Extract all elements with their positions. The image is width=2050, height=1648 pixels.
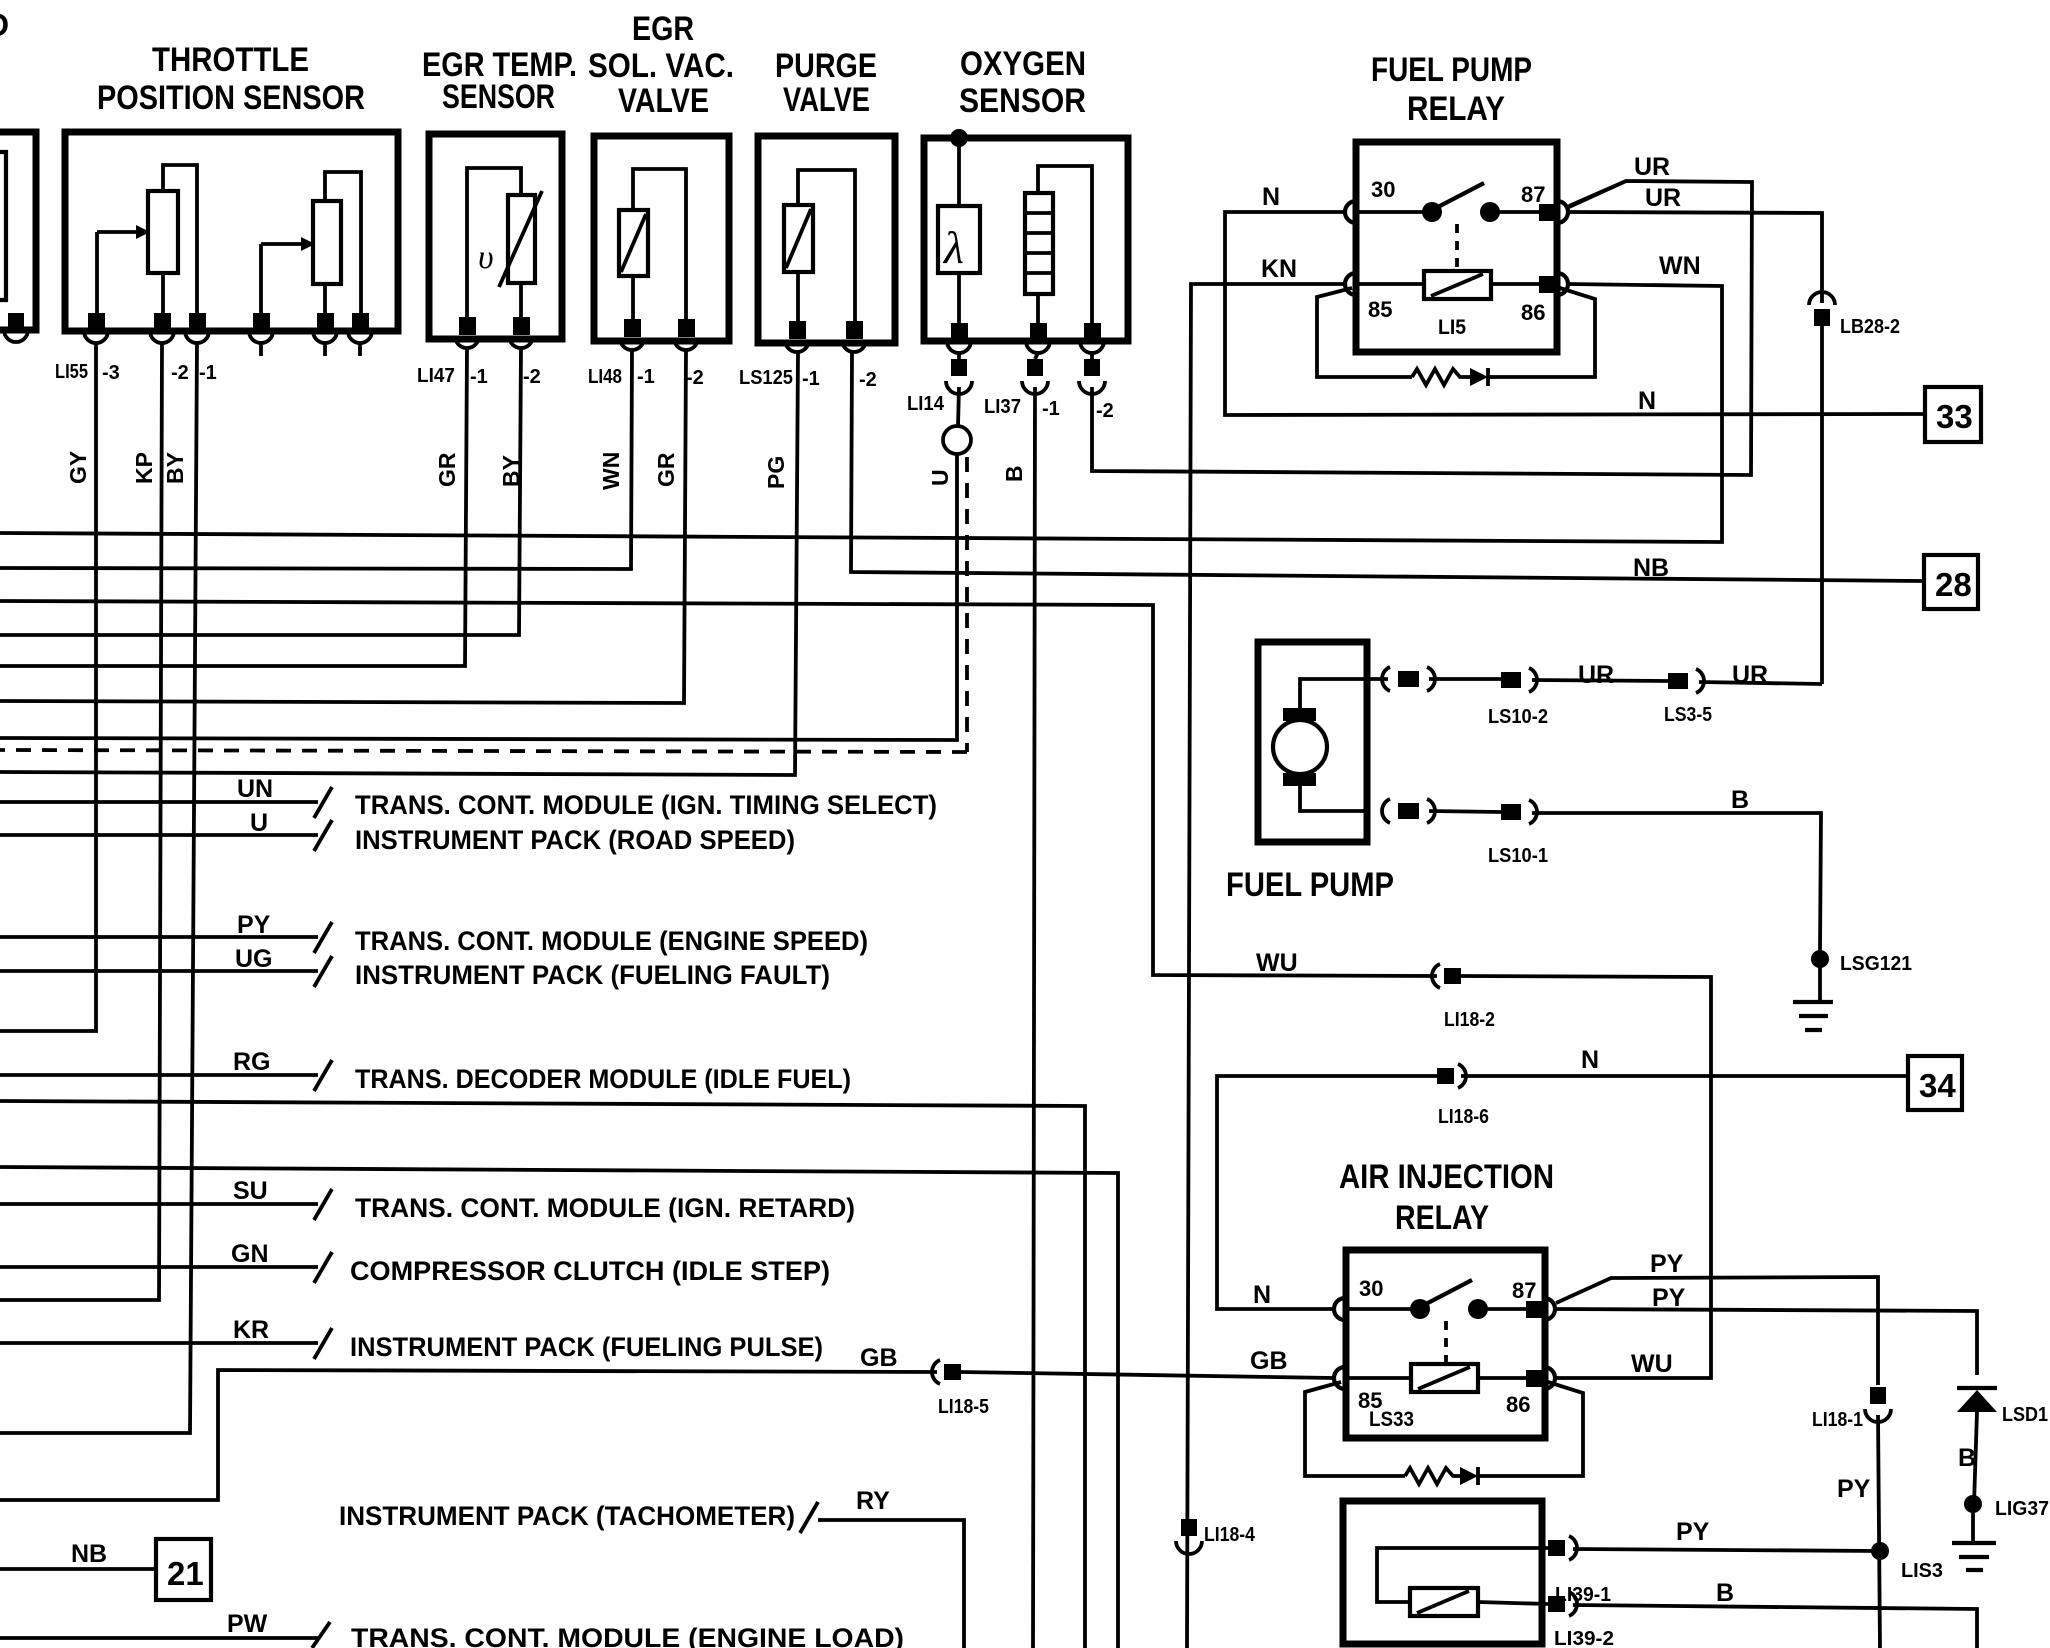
relay coil xyxy=(1424,271,1491,299)
relay terminal bump 86 xyxy=(1557,273,1568,295)
svg-text:FUEL PUMP: FUEL PUMP xyxy=(1371,51,1532,89)
ground symbol LIG37 xyxy=(1952,1543,1996,1570)
svg-text:-2: -2 xyxy=(1096,400,1114,422)
wire PY from LI18-1 to LIS3 xyxy=(1878,1415,1880,1648)
relay switch arm xyxy=(1436,183,1484,208)
wire UR upper from relay 87 xyxy=(1569,181,1626,206)
svg-text:-2: -2 xyxy=(686,367,704,389)
fuel pump box xyxy=(1258,642,1367,842)
air relay switch arm xyxy=(1424,1280,1472,1305)
svg-text:30: 30 xyxy=(1371,177,1395,202)
TPS pin 6 xyxy=(352,313,369,331)
svg-text:WU: WU xyxy=(1256,949,1298,977)
lambda cell bottom wire to pin xyxy=(957,273,961,323)
svg-text:COMPRESSOR CLUTCH (IDLE STEP): COMPRESSOR CLUTCH (IDLE STEP) xyxy=(350,1256,830,1286)
wire B from LSD1 to LIG37 xyxy=(1974,1412,1977,1504)
connector LI39-2 cup xyxy=(1569,1592,1577,1616)
svg-text:VALVE: VALVE xyxy=(618,82,709,120)
LI37-2 connector cup xyxy=(1079,381,1105,394)
TPS pot1 top loop wire xyxy=(163,165,197,315)
svg-text:UR: UR xyxy=(1732,661,1768,689)
svg-text:N: N xyxy=(1262,183,1280,211)
svg-text:PY: PY xyxy=(1650,1250,1684,1278)
TPS pot1 wiper wire xyxy=(97,232,136,315)
ground junction dot LSG121 xyxy=(1811,950,1829,968)
svg-text:LI14: LI14 xyxy=(907,393,945,415)
svg-text:LI48: LI48 xyxy=(588,366,622,388)
purge pin -2 xyxy=(846,321,863,339)
svg-text:UG: UG xyxy=(235,945,273,973)
ground symbol xyxy=(1793,1002,1833,1030)
svg-text:LIS3: LIS3 xyxy=(1901,1560,1943,1582)
wire KN relay 85 to page bottom xyxy=(1187,284,1345,1648)
svg-text:RELAY: RELAY xyxy=(1395,1199,1489,1237)
stub wire UN xyxy=(0,800,318,804)
wire GR from EGR valve -2 xyxy=(0,350,686,703)
air relay terminal bump 85 xyxy=(1334,1367,1345,1389)
stub wire PW xyxy=(0,1636,318,1640)
break slash SU xyxy=(314,1189,332,1220)
EGR solenoid body xyxy=(619,210,648,276)
air relay switch wire to 87 xyxy=(1486,1307,1527,1311)
wire PY from LI39-1 to LIS3 xyxy=(1573,1549,1880,1551)
svg-text:LI18-5: LI18-5 xyxy=(938,1396,989,1418)
svg-text:LI39-2: LI39-2 xyxy=(1554,1628,1614,1648)
connector LI18-2 cup xyxy=(1432,964,1440,988)
connector LI39-2 square xyxy=(1548,1596,1565,1612)
svg-text:NB: NB xyxy=(71,1540,107,1568)
svg-text:GY: GY xyxy=(65,451,91,484)
svg-text:B: B xyxy=(1731,786,1749,814)
numbered box 34 xyxy=(1908,1056,1962,1110)
relay switch wire from 30 xyxy=(1356,210,1424,214)
air solenoid valve box xyxy=(1343,1501,1542,1644)
stub wire UG xyxy=(0,969,318,973)
svg-text:RG: RG xyxy=(233,1048,271,1076)
pump top harness connector pair xyxy=(1367,677,1388,681)
oxygen pin U xyxy=(951,323,968,341)
svg-text:λ: λ xyxy=(942,222,964,273)
wire B from LI37-1 down off page xyxy=(1033,387,1035,1648)
EGR temp wire to pin2 xyxy=(519,283,523,317)
connector LS10-2 xyxy=(1501,672,1521,688)
svg-text:B: B xyxy=(1716,1579,1734,1607)
wire PG from purge -1 xyxy=(0,352,798,775)
TPS pin stubs xyxy=(261,343,360,356)
svg-text:85: 85 xyxy=(1368,297,1392,322)
LI14 connector square xyxy=(951,359,967,376)
svg-text:UR: UR xyxy=(1634,153,1670,181)
TPS pin -2 xyxy=(154,313,171,331)
air solenoid right wire xyxy=(1478,1602,1548,1604)
relay actuator dashed link xyxy=(1455,224,1459,271)
EGR temp thermistor body xyxy=(508,195,535,283)
LI14 connector cup xyxy=(946,381,972,394)
wire GY from TPS -3 xyxy=(0,343,96,1031)
wire GR from EGR temp -1 xyxy=(0,348,467,666)
numbered box 33 xyxy=(1925,387,1981,442)
air solenoid left loop wire xyxy=(1377,1548,1548,1602)
wire N from LI18-6 to box 34 xyxy=(1461,1074,1908,1078)
TPS pin bumps xyxy=(84,331,372,343)
svg-text:VALVE: VALVE xyxy=(783,81,870,119)
wire PY upper from air relay 87 xyxy=(1556,1277,1878,1385)
relay suppression branch left xyxy=(1317,288,1412,377)
break slash PW xyxy=(312,1622,330,1648)
svg-text:GR: GR xyxy=(653,452,679,487)
break slash RY xyxy=(800,1502,818,1533)
connector LI18-1 square xyxy=(1870,1387,1886,1404)
wire WU from left bus to LI18-2 xyxy=(0,601,1437,976)
svg-text:NB: NB xyxy=(1633,554,1669,582)
svg-text:21: 21 xyxy=(167,1555,204,1592)
wire UR from LI37-2 heater to relay 87 xyxy=(1092,181,1752,475)
wire PY lower from air relay 87 to LSD1 xyxy=(1555,1309,1977,1375)
svg-text:LI18-4: LI18-4 xyxy=(1204,1524,1256,1546)
svg-text:LS33: LS33 xyxy=(1369,1408,1414,1431)
wire from LB28-2 down to fuel pump UR line xyxy=(1820,326,1824,684)
air relay switch contact dot left xyxy=(1410,1299,1430,1319)
connector LI39-1 square xyxy=(1548,1540,1565,1556)
svg-text:SOL. VAC.: SOL. VAC. xyxy=(588,47,734,85)
svg-text:THROTTLE: THROTTLE xyxy=(152,41,309,79)
svg-text:-1: -1 xyxy=(470,366,488,388)
bump of partial box xyxy=(4,330,28,342)
relay coil wire to 86 xyxy=(1491,282,1540,286)
svg-text:D: D xyxy=(0,7,9,43)
connector LI18-5 square xyxy=(944,1364,961,1380)
svg-text:N: N xyxy=(1638,387,1656,415)
connector LS10-1 xyxy=(1501,804,1521,820)
svg-text:N: N xyxy=(1253,1281,1271,1309)
air solenoid diagonal xyxy=(1417,1591,1469,1613)
svg-text:SU: SU xyxy=(233,1177,268,1205)
connector LI18-6 square xyxy=(1437,1068,1454,1084)
wire GB from left bus to LI18-5 xyxy=(0,1370,937,1500)
EGR valve pin bumps xyxy=(620,338,698,350)
svg-text:87: 87 xyxy=(1512,1278,1536,1303)
partial component box at left page edge xyxy=(0,132,36,330)
bus wire to page bottom left xyxy=(0,1101,1085,1648)
svg-text:TRANS. CONT. MODULE (IGN. TIMI: TRANS. CONT. MODULE (IGN. TIMING SELECT) xyxy=(355,790,937,820)
LI37-1 connector square xyxy=(1027,359,1043,376)
wire BY from EGR temp -2 xyxy=(0,348,521,635)
TPS pot2 top loop wire xyxy=(325,172,361,315)
TPS potentiometer 1 xyxy=(148,191,178,273)
relay switch wire to 87 xyxy=(1498,210,1540,214)
wire UR between LS10-2 and LS3-5 xyxy=(1532,680,1668,681)
svg-text:LS10-2: LS10-2 xyxy=(1488,706,1548,728)
wire N relay 30 to box 33 xyxy=(1225,212,1925,415)
TPS pot1 bottom wire xyxy=(161,273,165,315)
bus wire to page bottom right xyxy=(0,1167,1118,1648)
svg-text:U: U xyxy=(927,469,953,486)
svg-text:LI37: LI37 xyxy=(984,396,1021,418)
junction dot LIS3 xyxy=(1871,1542,1889,1560)
LI37-2 connector square xyxy=(1084,359,1100,376)
break slash RG xyxy=(314,1060,332,1091)
svg-text:LS3-5: LS3-5 xyxy=(1664,704,1712,726)
svg-text:-2: -2 xyxy=(171,362,189,384)
EGR valve pin -1 xyxy=(624,319,641,337)
connector LI18-4 square xyxy=(1181,1519,1197,1536)
svg-text:KR: KR xyxy=(233,1316,269,1344)
svg-text:PY: PY xyxy=(1652,1284,1686,1312)
wire LIG37 to ground xyxy=(1971,1512,1975,1543)
lambda cell top wire xyxy=(957,142,961,206)
connector LI18-4 cup xyxy=(1176,1541,1202,1554)
svg-text:FUEL PUMP: FUEL PUMP xyxy=(1226,866,1394,904)
svg-text:RY: RY xyxy=(856,1487,890,1515)
diode LSD1 xyxy=(1957,1390,1997,1412)
wire B from LS10-1 to ground drop xyxy=(1532,813,1821,951)
svg-text:-3: -3 xyxy=(102,362,120,384)
svg-text:LSG121: LSG121 xyxy=(1840,953,1912,975)
purge solenoid top loop wire to pin2 xyxy=(798,170,855,321)
svg-text:LIG37: LIG37 xyxy=(1995,1498,2049,1520)
air suppression branch right xyxy=(1478,1382,1583,1476)
fuel pump top feed wire xyxy=(1300,679,1367,708)
svg-text:-1: -1 xyxy=(637,366,655,388)
svg-text:33: 33 xyxy=(1936,398,1973,435)
svg-text:SENSOR: SENSOR xyxy=(442,78,555,116)
connector LI39-1 cup xyxy=(1569,1536,1577,1560)
fuel pump brush top xyxy=(1283,708,1316,721)
relay switch contact dot left xyxy=(1422,202,1442,222)
relay 86 square xyxy=(1539,276,1556,293)
air relay switch wire from 30 xyxy=(1345,1307,1412,1311)
wire B from LI39-2 to page bottom xyxy=(1573,1605,1977,1648)
svg-text:GR: GR xyxy=(434,452,460,487)
svg-text:BY: BY xyxy=(498,455,524,487)
svg-text:PURGE: PURGE xyxy=(775,47,877,85)
EGR valve pin -2 xyxy=(678,319,695,337)
oxygen pin -1 xyxy=(1030,323,1047,341)
TPS pot2 bottom wire xyxy=(323,284,327,315)
EGR solenoid top loop wire to pin2 xyxy=(633,169,686,319)
svg-text:KN: KN xyxy=(1261,255,1297,283)
LI37-1 connector cup xyxy=(1022,381,1048,394)
connector LI18-2 square xyxy=(1444,968,1461,984)
inner rect of partial box xyxy=(0,152,6,300)
connector LB28-2 cup xyxy=(1809,292,1835,305)
break slash UG xyxy=(314,956,332,987)
connector LB28-2 square xyxy=(1814,309,1830,326)
svg-text:LI18-6: LI18-6 xyxy=(1438,1106,1489,1128)
wire KP from TPS -2 xyxy=(0,343,162,1300)
heater top loop wire to pin2 xyxy=(1038,166,1092,323)
throttle position sensor box xyxy=(65,132,398,331)
purge solenoid body xyxy=(784,205,813,272)
oxygen sensor box xyxy=(924,138,1128,341)
svg-text:GN: GN xyxy=(231,1240,269,1268)
fuel pump bottom wire xyxy=(1300,786,1367,811)
connector LS3-5 xyxy=(1668,673,1688,689)
svg-text:LI18-2: LI18-2 xyxy=(1444,1009,1495,1031)
air relay coil xyxy=(1411,1364,1478,1392)
svg-text:LS10-1: LS10-1 xyxy=(1488,845,1548,867)
TPS pin 4 xyxy=(253,313,270,331)
svg-text:UR: UR xyxy=(1578,661,1614,689)
air relay coil wire to 86 xyxy=(1478,1376,1527,1380)
svg-text:-1: -1 xyxy=(199,362,217,384)
svg-text:PY: PY xyxy=(237,911,271,939)
svg-text:LB28-2: LB28-2 xyxy=(1840,316,1900,338)
air solenoid body xyxy=(1410,1588,1478,1616)
svg-text:LI55: LI55 xyxy=(55,361,88,383)
EGR temp pin bumps xyxy=(455,336,533,348)
relay terminal bump 85 xyxy=(1345,273,1356,295)
air relay terminal bump 87 xyxy=(1544,1298,1555,1320)
air relay 86 square xyxy=(1526,1370,1543,1387)
svg-text:UR: UR xyxy=(1645,184,1681,212)
connector LI18-5 cup xyxy=(932,1360,940,1384)
purge solenoid bottom wire to pin1 xyxy=(796,272,800,321)
connector LI18-1 cup xyxy=(1865,1409,1891,1422)
svg-text:LI47: LI47 xyxy=(417,365,455,387)
wire U from LI14 down through grommet xyxy=(0,387,959,740)
svg-text:LI5: LI5 xyxy=(1438,316,1466,339)
EGR sol vac valve box xyxy=(594,136,729,341)
TPS pin 5 xyxy=(317,313,334,331)
wire WN from EGR valve -1 xyxy=(0,350,632,569)
air relay switch contact dot right xyxy=(1468,1299,1488,1319)
wire UR from LS3-5 to LB28-2 drop xyxy=(1699,682,1822,684)
relay switch contact dot right xyxy=(1480,202,1500,222)
air suppression resistor xyxy=(1405,1468,1460,1484)
TPS pot2 wiper wire xyxy=(261,244,301,315)
svg-text:WN: WN xyxy=(1659,252,1701,280)
svg-text:υ: υ xyxy=(478,239,494,276)
svg-text:-2: -2 xyxy=(859,369,877,391)
svg-text:GB: GB xyxy=(860,1344,898,1372)
svg-text:-1: -1 xyxy=(802,368,820,390)
svg-text:WU: WU xyxy=(1631,1350,1673,1378)
EGR temp pin -2 xyxy=(513,317,530,335)
break slash GN xyxy=(314,1252,332,1283)
svg-text:SENSOR: SENSOR xyxy=(959,82,1086,120)
svg-text:30: 30 xyxy=(1359,1276,1383,1301)
fuel pump relay box xyxy=(1356,142,1557,352)
oxygen pin -2 xyxy=(1084,323,1101,341)
EGR solenoid diagonal xyxy=(621,214,646,272)
svg-text:TRANS. CONT. MODULE (IGN. RETA: TRANS. CONT. MODULE (IGN. RETARD) xyxy=(355,1193,855,1223)
TPS pot1 wiper arrowhead xyxy=(136,225,150,239)
junction dot LIG37 xyxy=(1964,1495,1982,1513)
oxygen sensor case junction dot xyxy=(950,129,968,147)
oxygen lambda cell xyxy=(938,206,980,273)
svg-text:86: 86 xyxy=(1506,1392,1530,1417)
wire UR lower from relay 87 to LB28-2 xyxy=(1568,212,1822,303)
break slash UN xyxy=(314,787,332,818)
wire pin to LI14 connector xyxy=(957,353,961,359)
svg-text:GB: GB xyxy=(1250,1347,1288,1375)
relay coil diagonal xyxy=(1431,274,1483,296)
air relay coil wire from 85 xyxy=(1345,1376,1411,1380)
svg-text:PG: PG xyxy=(763,456,789,489)
svg-text:-1: -1 xyxy=(1042,398,1060,420)
TPS pin -3 xyxy=(88,313,105,331)
stub wire U xyxy=(0,833,318,837)
air relay suppression branch left xyxy=(1305,1382,1405,1476)
svg-text:28: 28 xyxy=(1935,566,1972,603)
oxygen heater element stack xyxy=(1025,193,1053,294)
pin of partial box xyxy=(8,313,24,329)
air relay terminal bump 86 xyxy=(1544,1367,1555,1389)
EGR temp pin -1 xyxy=(459,317,476,335)
suppression branch right xyxy=(1488,288,1595,377)
grommet circle on U wire xyxy=(943,426,971,454)
svg-text:UN: UN xyxy=(237,775,273,803)
svg-text:B: B xyxy=(1001,465,1027,482)
air relay actuator dashed link xyxy=(1444,1321,1448,1364)
relay coil wire from 85 xyxy=(1356,282,1424,286)
svg-text:LSD1: LSD1 xyxy=(2002,1404,2048,1426)
wire LI37-2 stub xyxy=(1090,353,1094,359)
break slash PY xyxy=(314,922,332,953)
relay terminal bump 30 xyxy=(1345,201,1356,223)
svg-text:PY: PY xyxy=(1837,1475,1871,1503)
purge valve box xyxy=(758,136,895,343)
svg-text:OXYGEN: OXYGEN xyxy=(960,45,1086,83)
air suppression diode xyxy=(1460,1467,1478,1485)
svg-text:TRANS. CONT. MODULE (ENGINE LO: TRANS. CONT. MODULE (ENGINE LOAD) xyxy=(351,1623,904,1648)
EGR temp thermistor diagonal xyxy=(499,191,542,287)
svg-text:N: N xyxy=(1581,1046,1599,1074)
svg-text:AIR INJECTION: AIR INJECTION xyxy=(1339,1158,1554,1196)
svg-text:BY: BY xyxy=(162,452,188,484)
numbered box 28 xyxy=(1924,555,1978,609)
svg-text:PW: PW xyxy=(227,1610,268,1638)
svg-text:POSITION SENSOR: POSITION SENSOR xyxy=(97,79,365,117)
svg-text:EGR: EGR xyxy=(632,10,694,48)
svg-text:INSTRUMENT PACK (FUELING FAULT: INSTRUMENT PACK (FUELING FAULT) xyxy=(355,960,830,990)
break slash U xyxy=(314,820,332,851)
svg-text:WN: WN xyxy=(598,452,624,490)
relay terminal bump 87 xyxy=(1557,201,1568,223)
svg-text:86: 86 xyxy=(1521,300,1545,325)
fuel pump motor circle xyxy=(1273,720,1327,774)
purge pin -1 xyxy=(789,321,806,339)
TPS pin -1 xyxy=(189,313,206,331)
wire B to LS10-1 xyxy=(1429,811,1501,812)
stub wire KR xyxy=(0,1341,318,1345)
oxygen pin bumps xyxy=(947,341,1104,353)
air relay 87 square xyxy=(1526,1301,1543,1318)
wire GB from LI18-5 to air injection relay 85 xyxy=(961,1372,1334,1378)
svg-text:RELAY: RELAY xyxy=(1407,90,1505,128)
EGR temp wire pin1 loop xyxy=(467,168,521,317)
wire BY from TPS -1 xyxy=(0,343,197,1433)
TPS pot2 wiper arrowhead xyxy=(301,237,315,251)
stub wire RG xyxy=(0,1073,318,1077)
wire to ground symbol xyxy=(1818,967,1822,1002)
svg-text:INSTRUMENT PACK (ROAD SPEED): INSTRUMENT PACK (ROAD SPEED) xyxy=(355,825,795,855)
heater bottom wire to pin1 xyxy=(1036,294,1040,323)
wire WN relay 86 to left bus xyxy=(0,284,1722,542)
wire LI37-1 stub xyxy=(1035,353,1038,359)
TPS potentiometer 2 xyxy=(313,201,341,284)
svg-text:PY: PY xyxy=(1676,1518,1710,1546)
air relay terminal bump 30 xyxy=(1334,1298,1345,1320)
wire NB from purge valve -2 to box 28 xyxy=(851,352,1924,581)
svg-text:INSTRUMENT PACK (TACHOMETER): INSTRUMENT PACK (TACHOMETER) xyxy=(339,1501,795,1531)
svg-text:B: B xyxy=(1958,1444,1976,1472)
svg-text:INSTRUMENT PACK (FUELING PULSE: INSTRUMENT PACK (FUELING PULSE) xyxy=(350,1332,823,1362)
screened cable dashed line xyxy=(0,457,967,752)
svg-text:U: U xyxy=(250,809,268,837)
air relay coil diagonal xyxy=(1418,1367,1470,1389)
